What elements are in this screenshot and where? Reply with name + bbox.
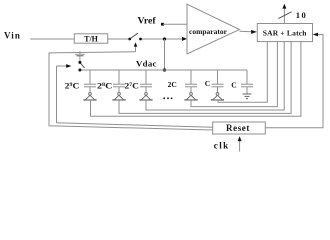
wire C1 driver to SAR bit line [91,42,301,117]
svg-text:Vref: Vref [138,15,157,26]
wire S2 control arrow (from Reset) [57,64,72,68]
inverter driver under C3 [139,93,152,101]
wire comparator output to SAR (arrow) [240,30,257,34]
svg-text:comparator: comparator [189,27,228,36]
wire clk input arrow into Reset [238,136,242,151]
wire Vref to comparator [163,23,187,25]
wire C5 driver to SAR bit line [218,42,267,103]
block Reset [213,122,266,134]
bus width slash [278,12,291,19]
svg-text:2C: 2C [168,80,177,89]
wire S1 control arrow (from Reset) [134,42,138,51]
svg-text:10: 10 [296,10,308,20]
svg-text:Vdac: Vdac [136,59,157,69]
capacitor C6 dummy value C [231,70,253,94]
svg-text:SAR + Latch: SAR + Latch [263,29,308,38]
ground under C6 [243,94,252,99]
wire C3 driver to SAR bit line [146,42,284,110]
wire C2 driver to SAR bit line [119,42,291,114]
block T/H [74,34,107,44]
capacitor C4 value 2C [168,70,197,93]
capacitor C2 value 2^8 C [97,70,125,93]
inverter driver under C5 [211,93,224,101]
bus digital output 10-bit (wire up with arrow) [282,4,286,24]
inverter driver under C2 [112,93,125,101]
ellipsis between C3 and C4 [163,97,172,99]
wire node A down to Vdac rail [164,39,166,70]
node Vdac junction [163,68,166,71]
wire C4 driver to SAR bit line [191,42,277,107]
svg-text:Vin: Vin [4,31,21,41]
switch S2 top-plate reset switch [75,51,85,71]
wire T/H to switch S1 [108,38,128,40]
svg-text:T/H: T/H [84,34,99,43]
node Vref terminal dot [161,23,164,26]
wire Vin to T/H [30,38,74,40]
capacitor C3 value 2^7 C [125,70,153,93]
wire Reset feedback to SAR (arrow into right side) [265,33,323,128]
svg-text:27C: 27C [125,82,140,91]
svg-text:Reset: Reset [226,123,250,133]
wire Vdac top-plate rail [80,69,247,71]
svg-text:28C: 28C [97,82,113,91]
wire node A into comparator (arrow) [182,37,187,41]
node A (junction to comparator and DAC) [163,37,166,40]
svg-text:29C: 29C [65,82,80,91]
inverter driver under C4 [184,93,197,101]
wire S1 to node A [142,38,183,40]
wire Reset to S2 control (upper left C path) [57,66,213,127]
switch S1 (sampling switch) [128,33,142,40]
capacitor C1 value 2^9 C [65,70,96,93]
block SAR + Latch [257,24,312,42]
svg-text:C: C [205,79,210,88]
svg-text:clk: clk [214,141,230,151]
capacitor C5 value C [205,70,224,93]
wire Reset to S1 control (lower left C path) [49,52,213,130]
op-amp U1 comparator [187,4,240,54]
inverter driver under C1 [83,93,96,101]
svg-text:C: C [231,81,236,90]
